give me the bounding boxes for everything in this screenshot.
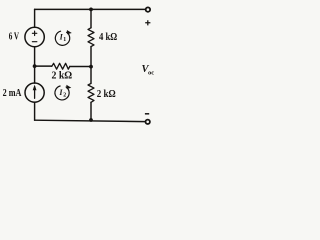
resistor 2k right zigzag (88, 83, 94, 102)
svg-text:4 kΩ: 4 kΩ (99, 32, 117, 43)
svg-text:2 kΩ: 2 kΩ (97, 89, 116, 100)
junction node A dot (89, 7, 93, 11)
voltage source plus sign (32, 31, 36, 35)
mesh I2 arrowhead (66, 85, 71, 89)
wire middle: node B to node C (35, 65, 91, 67)
svg-text:1: 1 (63, 37, 66, 43)
mesh current I1 loop arc (55, 31, 69, 45)
junction node C dot (89, 65, 93, 69)
minus terminal sign (145, 113, 149, 115)
terminal top right open circle (146, 7, 150, 11)
junction node B dot (33, 64, 37, 68)
junction node D dot (89, 118, 93, 122)
voltage source minus sign (32, 41, 36, 43)
wire top: node A to output terminal (35, 8, 146, 10)
wire right branch bottom (90, 102, 92, 120)
wire right branch top (90, 9, 92, 27)
mesh I1 arrowhead (67, 30, 72, 34)
plus terminal sign (145, 20, 150, 25)
wire left branch top: corner down to V source (34, 9, 36, 27)
wire left branch middle: V source to current source (34, 47, 36, 83)
svg-text:6 V: 6 V (9, 32, 20, 43)
svg-text:2 kΩ: 2 kΩ (52, 70, 73, 81)
svg-text:oc: oc (148, 70, 154, 77)
voltage source V1 6V circle (25, 27, 44, 46)
wire right branch mid (90, 47, 92, 84)
resistor 4k zigzag (88, 28, 94, 47)
current source I 2mA circle (25, 83, 44, 102)
svg-text:2 mA: 2 mA (3, 88, 22, 99)
terminal bottom right open circle (146, 120, 150, 124)
svg-text:2: 2 (63, 93, 66, 99)
mesh current I2 loop arc (55, 86, 69, 100)
current source arrow shaft (34, 87, 36, 99)
current source arrowhead (33, 85, 37, 91)
wire bottom rail (35, 120, 146, 121)
wire left branch bottom: current source to bottom rail (34, 102, 36, 120)
resistor 2k middle zigzag (52, 63, 70, 69)
